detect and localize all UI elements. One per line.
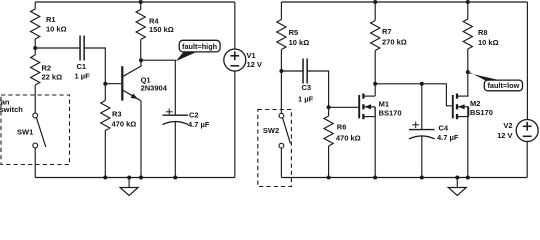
svg-text:SW2: SW2 xyxy=(263,126,279,135)
junction C4/bus xyxy=(420,176,424,180)
svg-text:1 µF: 1 µF xyxy=(75,71,91,80)
junction R4 top xyxy=(139,0,143,4)
junction C2/bus xyxy=(173,176,177,180)
svg-text:10 kΩ: 10 kΩ xyxy=(46,25,67,34)
ground bus right xyxy=(281,177,527,179)
svg-text:M2: M2 xyxy=(470,99,480,108)
node VCC2 top bus xyxy=(281,1,527,3)
source V2 circle xyxy=(516,120,538,142)
svg-text:1 µF: 1 µF xyxy=(298,94,314,103)
svg-text:10 kΩ: 10 kΩ xyxy=(289,38,310,47)
wire xyxy=(280,148,282,177)
svg-text:C4: C4 xyxy=(439,124,449,133)
transistor M1 BS170 xyxy=(359,94,375,120)
node VCC1 top bus xyxy=(35,1,235,3)
source V1 circle xyxy=(224,49,246,71)
svg-text:2N3904: 2N3904 xyxy=(141,84,168,93)
junction ground stem right xyxy=(455,176,459,180)
wire C1 to base node xyxy=(84,48,106,84)
wire xyxy=(467,2,469,19)
junction R3/ground bus xyxy=(103,176,107,180)
callout fault=high xyxy=(176,52,197,61)
wire xyxy=(526,2,528,120)
svg-text:fault=low: fault=low xyxy=(487,81,519,90)
svg-text:C3: C3 xyxy=(302,83,312,92)
svg-text:470 kΩ: 470 kΩ xyxy=(112,120,137,129)
wire collector to C2 xyxy=(141,60,175,115)
svg-text:BS170: BS170 xyxy=(470,108,493,117)
wire M2 source to bus xyxy=(467,107,469,177)
svg-text:4.7 µF: 4.7 µF xyxy=(188,120,210,129)
svg-text:R7: R7 xyxy=(382,27,392,36)
svg-text:fault=high: fault=high xyxy=(182,42,217,51)
wire emitter to bus xyxy=(140,101,142,178)
svg-text:switch: switch xyxy=(0,105,23,114)
junction M1 source/bus xyxy=(373,176,377,180)
wire xyxy=(421,84,423,130)
capacitor C3 xyxy=(302,59,304,84)
svg-text:SW1: SW1 xyxy=(17,128,33,137)
wire xyxy=(328,107,330,116)
wire xyxy=(104,131,106,178)
resistor R2 xyxy=(31,55,40,85)
wire xyxy=(280,50,282,114)
wire R7 to M1 drain xyxy=(374,51,376,97)
wire xyxy=(34,148,36,178)
junction M2 source/bus xyxy=(466,176,470,180)
resistor R5 xyxy=(277,20,286,50)
wire M1 source to bus xyxy=(374,107,376,177)
junction R6/bus xyxy=(327,176,331,180)
junction ground stem xyxy=(127,176,131,180)
capacitor C2 xyxy=(163,114,189,116)
junction C4 top xyxy=(420,82,424,86)
svg-text:150 kΩ: 150 kΩ xyxy=(149,25,174,34)
wire xyxy=(234,71,236,178)
wire xyxy=(421,136,423,178)
svg-text:BS170: BS170 xyxy=(379,108,402,117)
wire base xyxy=(105,83,121,85)
wire xyxy=(140,2,142,10)
wire xyxy=(104,84,106,101)
wire xyxy=(34,39,36,55)
svg-text:R3: R3 xyxy=(112,110,122,119)
wire xyxy=(328,146,330,178)
svg-text:C2: C2 xyxy=(189,111,199,120)
svg-text:R5: R5 xyxy=(289,28,299,37)
wire xyxy=(140,40,142,61)
wire node D to C3 xyxy=(281,70,303,72)
wire C3 to gate node xyxy=(307,71,329,107)
capacitor C1 xyxy=(79,36,81,61)
svg-text:R1: R1 xyxy=(46,15,56,24)
node C (collector) xyxy=(139,58,143,62)
junction R8 top xyxy=(466,0,470,4)
wire xyxy=(234,2,236,49)
svg-text:270 kΩ: 270 kΩ xyxy=(382,38,407,47)
ground right xyxy=(456,178,458,188)
svg-text:R8: R8 xyxy=(478,28,488,37)
wire xyxy=(374,2,376,21)
svg-text:4.7 µF: 4.7 µF xyxy=(437,133,459,142)
resistor R3 xyxy=(101,101,110,131)
node F (drain M1) xyxy=(373,82,377,86)
wire node A to C1 xyxy=(35,47,80,49)
resistor R4 xyxy=(136,10,145,40)
svg-text:R6: R6 xyxy=(337,122,347,131)
wire gate M1 xyxy=(329,106,359,108)
svg-text:12 V: 12 V xyxy=(497,131,512,140)
svg-text:10 kΩ: 10 kΩ xyxy=(478,38,499,47)
svg-text:M1: M1 xyxy=(379,99,389,108)
node B (base/R3) xyxy=(103,82,107,86)
svg-text:470 kΩ: 470 kΩ xyxy=(336,134,361,143)
switch SW1 contacts xyxy=(33,113,38,118)
junction emitter/bus xyxy=(139,176,143,180)
wire xyxy=(280,2,282,20)
junction R7 top xyxy=(373,0,377,4)
ground bus left xyxy=(35,177,235,179)
resistor R8 xyxy=(463,19,472,49)
svg-text:R2: R2 xyxy=(42,63,52,72)
svg-text:C1: C1 xyxy=(77,62,87,71)
capacitor C4 xyxy=(409,129,435,131)
node E (gate/R6) xyxy=(327,105,331,109)
transistor Q1 2N3904 xyxy=(122,60,141,100)
transistor M2 BS170 xyxy=(453,94,469,120)
svg-text:V2: V2 xyxy=(503,121,512,130)
resistor R7 xyxy=(371,21,380,51)
wire drain M1 to gate M2 xyxy=(375,84,452,106)
wire R8 to M2 drain xyxy=(467,49,469,96)
resistor R6 xyxy=(324,116,333,146)
wire xyxy=(526,142,528,178)
switch SW2 contacts xyxy=(279,113,284,118)
node G (drain M2) xyxy=(466,70,470,74)
node A (R1/R2/C1) xyxy=(33,46,37,50)
svg-text:V1: V1 xyxy=(247,51,256,60)
svg-text:22 kΩ: 22 kΩ xyxy=(42,72,63,81)
callout fault=low xyxy=(468,72,500,81)
node D (R5/C3/SW2) xyxy=(279,69,283,73)
wire xyxy=(34,2,36,9)
wire xyxy=(34,85,36,113)
ground left xyxy=(128,178,130,188)
svg-text:12 V: 12 V xyxy=(247,60,262,69)
manual switch enclosure (dashed box) xyxy=(1,95,70,165)
wire xyxy=(174,121,176,178)
resistor R1 xyxy=(31,9,40,39)
switch SW2 enclosure (dashed box) xyxy=(258,110,292,187)
